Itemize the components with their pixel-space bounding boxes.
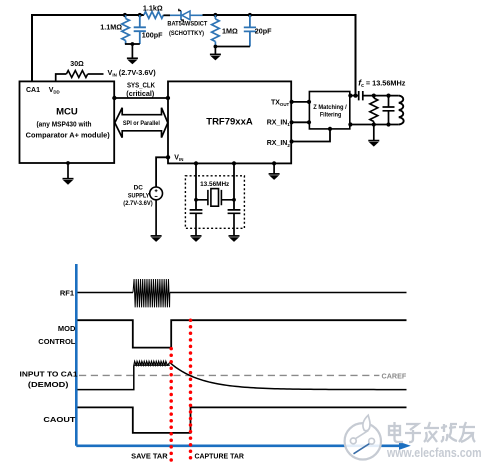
node top rail junction at 100pF: [138, 13, 142, 17]
wire joining 1.1Mohm and 100pF bottoms: [125, 43, 140, 45]
MCU U1 box: [20, 81, 115, 163]
axis arrowhead: [399, 442, 411, 450]
ground crystal right: [229, 236, 240, 242]
svg-text:TRF79xxA: TRF79xxA: [206, 117, 253, 128]
Z matching filtering box: [309, 92, 349, 129]
svg-text:MOD: MOD: [58, 324, 76, 333]
svg-text:(2.7V-3.6V): (2.7V-3.6V): [123, 200, 153, 207]
wire tank bottom rail: [350, 124, 399, 126]
node bottom join: [131, 42, 135, 46]
svg-text:DC: DC: [134, 185, 144, 192]
capacitor crystal load right: [228, 210, 241, 236]
signal RF1 baseline right: [170, 292, 407, 294]
resistor 1.1Mohm vertical: [125, 15, 127, 19]
marker red dotted line save: [169, 347, 173, 351]
wire TRF ground stem: [273, 163, 275, 174]
signal MOD CONTROL waveform: [78, 320, 407, 347]
ground below MCU: [63, 179, 74, 185]
svg-text:CAPTURE TAR: CAPTURE TAR: [194, 452, 244, 461]
node top rail junction at 1.1Mohm: [123, 13, 127, 17]
svg-text:30Ω: 30Ω: [70, 61, 84, 68]
svg-text:1.1kΩ: 1.1kΩ: [143, 4, 163, 13]
crystal dashed boundary box: [185, 176, 244, 229]
supply minus mark: [155, 195, 158, 197]
svg-text:INPUT TO CA1: INPUT TO CA1: [20, 369, 78, 378]
svg-text:VDD: VDD: [49, 87, 60, 95]
bus arrow SPI or Parallel: [115, 108, 168, 138]
axis horizontal blue: [76, 444, 400, 447]
signal demod carrier teeth: [134, 361, 170, 365]
signal RF1 carrier burst: [133, 279, 170, 307]
svg-text:Comparator A+ module): Comparator A+ module): [26, 130, 111, 139]
node MCU ground: [66, 161, 70, 165]
source DC supply circle: [150, 187, 163, 200]
diode schottky hooks: [179, 9, 183, 22]
watermark text dianzifashaoyou: [389, 422, 475, 442]
crystal Y1: [196, 190, 234, 205]
svg-text:SAVE TAR: SAVE TAR: [131, 452, 168, 461]
wire RX_IN1 to Z matching: [291, 121, 309, 123]
wire Z matching out top: [350, 95, 359, 97]
wire RX_IN2 to Z matching bottom: [291, 129, 330, 142]
capacitor series antenna: [359, 91, 363, 100]
ground antenna tank: [368, 141, 379, 147]
axis vertical blue: [75, 264, 78, 446]
signal demod baseline and step: [78, 365, 134, 389]
capacitor crystal load left: [190, 210, 203, 236]
svg-text:(critical): (critical): [126, 89, 155, 98]
ground below 1Mohm: [210, 54, 221, 60]
watermark logo circle: [345, 415, 381, 459]
svg-text:fc = 13.56MHz: fc = 13.56MHz: [358, 77, 406, 89]
wire stem to ground: [214, 47, 216, 55]
wire tank top rail: [363, 95, 399, 97]
node top rail junction at 1Mohm: [213, 13, 217, 17]
inductor antenna coil: [399, 96, 404, 125]
signal CAOUT waveform: [78, 407, 407, 433]
capacitor antenna tank: [383, 96, 395, 125]
node 1Mohm bottom: [214, 45, 218, 49]
resistor 1Mohm vertical: [214, 15, 216, 19]
ground below TRF: [269, 174, 280, 180]
svg-text:CONTROL: CONTROL: [38, 337, 75, 346]
svg-text:1MΩ: 1MΩ: [222, 26, 238, 35]
svg-text:Z Matching /: Z Matching /: [313, 104, 347, 111]
wire crystal right leg: [233, 163, 235, 209]
wire DC supply to ground: [155, 200, 157, 236]
resistor 1.1kohm horizontal: [144, 12, 164, 19]
svg-text:CA1: CA1: [26, 87, 40, 94]
svg-text:RF1: RF1: [60, 288, 74, 297]
node crystal left: [194, 198, 198, 202]
resistor 30ohm horizontal: [66, 71, 87, 78]
diode D1 BAT54WSDICT schottky: [170, 14, 181, 16]
ground crystal left: [191, 236, 202, 242]
ground below DC supply: [151, 236, 162, 242]
svg-text:CAREF: CAREF: [382, 371, 407, 380]
signal demod decay curve: [170, 363, 407, 390]
svg-text:TXOUT: TXOUT: [271, 100, 290, 108]
svg-text:SPI or Parallel: SPI or Parallel: [123, 120, 160, 127]
wire VDD stub: [56, 74, 67, 81]
svg-text:www.elecfans.com: www.elecfans.com: [386, 446, 481, 460]
svg-text:100pF: 100pF: [142, 30, 163, 39]
wire MCU ground stem: [67, 163, 69, 179]
svg-text:Filtering: Filtering: [320, 112, 342, 119]
node SYS_CLK at MCU: [112, 96, 116, 100]
svg-text:BAT54WSDICT: BAT54WSDICT: [167, 22, 207, 28]
wire joining 1Mohm and 20pF bottoms: [215, 46, 250, 48]
svg-text:VIN: VIN: [174, 154, 183, 162]
supply plus mark: [155, 189, 158, 192]
wire top rail left segment with drop to CA1: [32, 15, 144, 82]
signal RF1 baseline left: [78, 292, 134, 294]
wire tank ground stem: [373, 125, 375, 141]
svg-text:1.1MΩ: 1.1MΩ: [100, 23, 122, 32]
svg-text:MCU: MCU: [56, 107, 78, 118]
node vertical feed joins: [353, 94, 357, 98]
svg-text:CAOUT: CAOUT: [43, 415, 75, 424]
svg-text:RX_IN1: RX_IN1: [267, 120, 291, 128]
wire diode to node: [203, 14, 216, 16]
wire VIN pin to DC supply: [156, 157, 168, 187]
node SYS_CLK at TRF: [166, 96, 170, 100]
svg-text:SUPPLY: SUPPLY: [128, 192, 150, 199]
node top rail junction at 20pF: [248, 13, 252, 17]
svg-text:20pF: 20pF: [255, 26, 272, 35]
svg-text:13.56MHz: 13.56MHz: [200, 181, 229, 188]
wire TXOUT to Z matching: [291, 101, 309, 103]
capacitor 100pF: [134, 15, 146, 44]
node crystal right: [232, 198, 236, 202]
capacitor 20pF: [244, 15, 256, 47]
wire 30ohm to VIN label: [88, 73, 104, 75]
svg-text:RX_IN2: RX_IN2: [267, 140, 291, 148]
node VIN pin: [166, 155, 170, 159]
svg-text:(any MSP430 with: (any MSP430 with: [37, 119, 92, 128]
svg-text:(DEMOD): (DEMOD): [28, 380, 69, 389]
wire SYS_CLK between MCU and TRF: [114, 97, 168, 99]
svg-text:(SCHOTTKY): (SCHOTTKY): [169, 31, 204, 37]
ground below 100pF: [127, 58, 138, 64]
wire stem to ground: [131, 44, 133, 58]
transceiver U2 TRF79xxA box: [168, 81, 291, 163]
wire 1.1kohm to diode: [163, 14, 170, 16]
reference CAREF dashed line: [79, 374, 379, 376]
wire crystal left leg: [195, 163, 197, 209]
resistor antenna damping vertical: [373, 96, 375, 98]
svg-text:VIN (2.7V-3.6V): VIN (2.7V-3.6V): [108, 68, 157, 78]
wire top rail right segment with drop to matching network: [203, 15, 356, 96]
marker red dotted line capture: [189, 318, 193, 322]
